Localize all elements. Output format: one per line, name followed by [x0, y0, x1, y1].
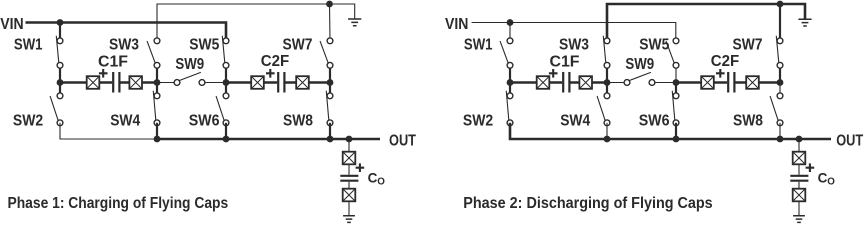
- svg-text:SW1: SW1: [14, 36, 43, 53]
- svg-text:SW3: SW3: [109, 36, 139, 53]
- capacitor C1F plates: [113, 72, 119, 93]
- node C2F left node: [223, 79, 230, 86]
- svg-text:VIN: VIN: [445, 16, 468, 33]
- switch SW4: [597, 93, 610, 126]
- label SW3: [559, 36, 589, 53]
- label OUT: [389, 133, 416, 150]
- wire SW4 top stub: [156, 83, 158, 96]
- svg-text:SW7: SW7: [733, 36, 763, 53]
- CO polarity +: [806, 163, 815, 172]
- wire SW7 top stub: [779, 4, 781, 41]
- wire CO mid lead 1: [348, 165, 350, 175]
- wire SW8 bottom stub: [329, 123, 331, 139]
- node OUT rail junction at SW8: [327, 136, 334, 143]
- svg-text:OUT: OUT: [836, 133, 863, 150]
- label SW5: [639, 36, 669, 53]
- wire middle row C2F left: [676, 81, 727, 84]
- svg-text:SW4: SW4: [560, 112, 590, 129]
- node C1F right node: [604, 79, 611, 86]
- wire SW2 bottom leg to OUT rail: [60, 123, 157, 139]
- wire ground rail (top): [157, 4, 355, 41]
- wire SW1 bottom stub: [59, 65, 61, 82]
- label SW6: [189, 112, 220, 129]
- wire SW4 top stub: [606, 83, 608, 96]
- pin C1F-: [579, 76, 592, 89]
- wire SW7 bottom stub: [779, 65, 781, 82]
- label SW2: [13, 112, 43, 129]
- switch SW9: [624, 73, 655, 86]
- label SW5: [189, 36, 219, 53]
- label SW1: [464, 36, 493, 53]
- pin C1F-: [129, 76, 142, 89]
- wire CO mid lead 2: [798, 182, 800, 189]
- capacitor C1F plates: [563, 72, 569, 93]
- label SW9: [175, 56, 204, 73]
- svg-text:SW1: SW1: [464, 36, 493, 53]
- svg-text:SW3: SW3: [559, 36, 589, 53]
- wire SW9 left lead: [157, 82, 177, 84]
- wire SW8 top stub: [329, 83, 331, 96]
- pin CO top: [793, 152, 806, 165]
- svg-text:C2F: C2F: [261, 53, 289, 70]
- wire VIN rail: [26, 23, 227, 41]
- switch SW6: [672, 91, 679, 126]
- switch SW7: [776, 36, 783, 68]
- svg-text:SW8: SW8: [733, 112, 763, 129]
- switch SW2: [50, 93, 63, 126]
- wire SW3 bottom stub: [156, 65, 158, 82]
- wire SW8 top stub: [779, 83, 781, 96]
- svg-text:SW9: SW9: [625, 56, 654, 73]
- wire SW1 bottom stub: [509, 65, 511, 82]
- wire CO top lead: [798, 139, 800, 152]
- ground symbol top ground: [348, 19, 361, 26]
- switch SW8: [326, 91, 333, 126]
- node VIN junction above SW1: [57, 19, 64, 26]
- node OUT rail junction at CO: [796, 136, 803, 143]
- label SW9: [625, 56, 654, 73]
- label C2F: [711, 53, 739, 70]
- pin C2F-: [296, 76, 309, 89]
- ground symbol CO ground: [793, 216, 805, 223]
- wire SW6 bottom stub: [675, 123, 677, 139]
- pin CO bottom: [793, 189, 806, 202]
- switch SW8: [770, 93, 783, 126]
- switch SW2: [506, 91, 513, 126]
- wire SW2 top stub: [59, 83, 61, 96]
- wire CO ground lead: [798, 202, 800, 216]
- svg-text:SW5: SW5: [639, 36, 669, 53]
- node ground rail junction above SW7: [326, 1, 333, 8]
- switch SW5: [222, 36, 229, 68]
- switch SW1: [500, 38, 513, 68]
- label SW7: [283, 36, 313, 53]
- svg-text:SW5: SW5: [189, 36, 219, 53]
- switch SW9: [174, 73, 205, 86]
- svg-text:O: O: [377, 177, 385, 188]
- svg-text:C: C: [818, 171, 828, 186]
- label OUT: [836, 133, 863, 150]
- label caption phase 1: [8, 195, 229, 212]
- svg-text:SW4: SW4: [110, 112, 140, 129]
- switch SW4: [153, 91, 160, 126]
- svg-text:OUT: OUT: [389, 133, 416, 150]
- wire OUT rail: [157, 138, 380, 141]
- label SW8: [283, 112, 313, 129]
- wire CO mid lead 2: [348, 182, 350, 189]
- wire SW6 top stub: [675, 83, 677, 96]
- node OUT rail junction at SW4: [154, 136, 161, 143]
- node C2F left node: [673, 79, 680, 86]
- label SW4: [560, 112, 590, 129]
- label C2F: [261, 53, 289, 70]
- switch SW3: [603, 36, 610, 68]
- ground symbol CO ground: [343, 216, 355, 223]
- wire CO top lead: [348, 139, 350, 152]
- switch SW5: [666, 38, 679, 68]
- svg-text:SW7: SW7: [283, 36, 313, 53]
- switch SW3: [147, 38, 160, 68]
- svg-text:SW6: SW6: [189, 112, 220, 129]
- label C1F: [550, 54, 580, 71]
- wire SW2 bottom leg to OUT rail: [510, 123, 607, 139]
- node OUT rail junction at SW6: [673, 136, 680, 143]
- wire SW2 top stub: [509, 83, 511, 96]
- C1F polarity +: [549, 69, 558, 78]
- wire middle row C1F right: [121, 81, 158, 84]
- wire SW9 left lead: [607, 82, 627, 84]
- wire SW8 bottom stub: [779, 123, 781, 139]
- svg-text:C1F: C1F: [98, 54, 128, 71]
- pin C2F-: [746, 76, 759, 89]
- label C1F: [98, 54, 128, 71]
- capacitor CO plates: [340, 176, 358, 181]
- CO polarity +: [356, 163, 365, 172]
- node C1F left node: [57, 79, 64, 86]
- node C1F right node: [154, 79, 161, 86]
- label CO: [818, 171, 836, 188]
- svg-text:SW2: SW2: [13, 112, 43, 129]
- label SW7: [733, 36, 763, 53]
- node VIN junction above SW1: [507, 19, 514, 26]
- wire SW5 bottom stub: [225, 65, 227, 82]
- svg-text:Phase 1: Charging of Flying Ca: Phase 1: Charging of Flying Caps: [8, 195, 229, 212]
- label SW2: [463, 112, 493, 129]
- node OUT rail junction at SW6: [223, 136, 230, 143]
- label SW8: [733, 112, 763, 129]
- capacitor C2F plates: [278, 72, 284, 93]
- C2F polarity +: [716, 69, 725, 78]
- C1F polarity +: [99, 69, 108, 78]
- label CO: [368, 171, 386, 188]
- label SW3: [109, 36, 139, 53]
- wire SW5 bottom stub: [675, 65, 677, 82]
- node C1F left node: [507, 79, 514, 86]
- wire middle row C1F right: [571, 81, 608, 84]
- wire ground rail (top): [607, 4, 805, 41]
- svg-text:SW8: SW8: [283, 112, 313, 129]
- svg-text:C2F: C2F: [711, 53, 739, 70]
- wire SW9 right lead: [202, 82, 226, 84]
- svg-text:VIN: VIN: [0, 16, 23, 33]
- wire VIN rail: [472, 23, 676, 41]
- wire SW7 top stub: [329, 4, 332, 41]
- svg-text:C1F: C1F: [550, 54, 580, 71]
- wire CO mid lead 1: [798, 165, 800, 175]
- pin C1F+: [87, 76, 100, 89]
- svg-text:O: O: [827, 177, 835, 188]
- pin C1F+: [537, 76, 550, 89]
- node OUT rail junction at SW8: [777, 136, 784, 143]
- label SW6: [639, 112, 670, 129]
- wire SW7 bottom stub: [329, 65, 331, 82]
- capacitor C2F plates: [728, 72, 734, 93]
- ground symbol top ground: [798, 19, 811, 26]
- wire SW3 bottom stub: [606, 65, 608, 82]
- wire SW4 bottom stub: [606, 123, 608, 139]
- svg-text:Phase 2: Discharging of Flying: Phase 2: Discharging of Flying Caps: [463, 195, 712, 212]
- svg-text:SW2: SW2: [463, 112, 493, 129]
- pin CO top: [343, 152, 356, 165]
- label caption phase 2: [463, 195, 712, 212]
- svg-text:SW9: SW9: [175, 56, 204, 73]
- node OUT rail junction at SW4: [604, 136, 611, 143]
- wire SW4 bottom stub: [156, 123, 158, 139]
- pin CO bottom: [343, 189, 356, 202]
- pin C2F+: [251, 76, 264, 89]
- label SW1: [14, 36, 43, 53]
- wire SW9 right lead: [652, 82, 676, 84]
- node ground rail junction above SW7: [777, 1, 784, 8]
- switch SW7: [320, 38, 333, 68]
- label SW4: [110, 112, 140, 129]
- svg-text:SW6: SW6: [639, 112, 670, 129]
- wire middle row C2F left: [226, 81, 277, 84]
- switch SW1: [56, 36, 63, 68]
- wire OUT rail: [607, 138, 831, 141]
- svg-text:C: C: [368, 171, 378, 186]
- wire CO ground lead: [348, 202, 350, 216]
- node OUT rail junction at CO: [346, 136, 353, 143]
- wire SW6 top stub: [225, 83, 227, 96]
- wire SW1 top stub: [59, 23, 61, 41]
- switch SW6: [216, 93, 229, 126]
- wire SW1 top stub: [509, 23, 511, 41]
- capacitor CO plates: [790, 176, 808, 181]
- C2F polarity +: [266, 69, 275, 78]
- label VIN (phase 1): [0, 16, 23, 33]
- pin C2F+: [701, 76, 714, 89]
- node C2F right node: [777, 79, 784, 86]
- label VIN (phase 2): [445, 16, 468, 33]
- wire middle row C2F right: [736, 81, 781, 84]
- wire middle row C1F left: [510, 81, 562, 84]
- wire SW6 bottom stub: [225, 123, 227, 139]
- wire middle row C1F left: [60, 81, 112, 84]
- wire middle row C2F right: [286, 81, 331, 84]
- node C2F right node: [327, 79, 334, 86]
